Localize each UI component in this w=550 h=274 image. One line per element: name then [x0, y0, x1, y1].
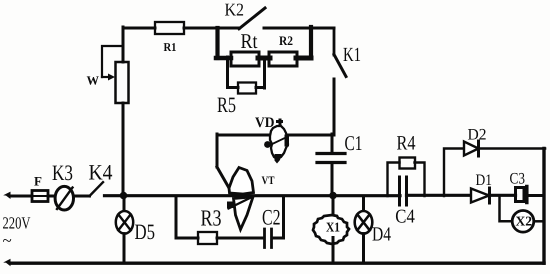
- capacitor C1: [331, 134, 334, 152]
- wire left vertical: [122, 27, 125, 196]
- wire R5 right branch: [256, 57, 265, 88]
- resistor R4: [400, 158, 416, 169]
- svg-text:D4: D4: [372, 224, 391, 246]
- node junction dot C1 bus: [329, 192, 337, 200]
- fuse F: [32, 191, 48, 202]
- wire R4 loop: [388, 163, 425, 197]
- svg-text:F: F: [34, 174, 42, 189]
- svg-text:K1: K1: [343, 44, 361, 66]
- resistor R1: [155, 22, 184, 34]
- svg-text:R4: R4: [397, 133, 416, 155]
- svg-text:D5: D5: [135, 219, 156, 244]
- svg-text:R3: R3: [201, 206, 222, 231]
- wire R5 left branch: [228, 57, 239, 88]
- svg-text:C3: C3: [510, 171, 526, 188]
- wire R3-C2 loop: [176, 196, 198, 238]
- main bus: [11, 195, 32, 198]
- wire top-left horizontal: [123, 27, 240, 30]
- svg-text:R1: R1: [164, 40, 177, 54]
- wire bus segment right: [407, 194, 516, 197]
- wire: [217, 237, 264, 240]
- wire VD row: [217, 134, 333, 137]
- wire: [74, 195, 90, 198]
- lamp X2: [512, 211, 534, 233]
- svg-text:220V: 220V: [3, 214, 32, 233]
- capacitor C2: [265, 229, 272, 248]
- wire bus segment: [105, 194, 401, 197]
- node: thick right riser to top wire: [309, 27, 313, 58]
- lamp D4: [362, 196, 365, 212]
- bottom bus: [11, 262, 544, 265]
- resistor Rt: [231, 52, 259, 66]
- wire top-right horizontal: [264, 27, 334, 30]
- switch K4: [90, 182, 104, 196]
- svg-text:K3: K3: [52, 160, 73, 185]
- wire right vertical: [542, 149, 545, 264]
- wire R2 right link: [296, 56, 311, 61]
- switch K2: [239, 8, 265, 29]
- resistor R2: [269, 52, 297, 66]
- svg-text:D2: D2: [468, 127, 487, 144]
- svg-text:~: ~: [3, 231, 12, 250]
- wire Rt-R2 link: [258, 56, 270, 61]
- svg-text:Rt: Rt: [241, 29, 258, 53]
- svg-text:W: W: [87, 74, 100, 88]
- switch K1: [333, 28, 336, 55]
- transistor VT: [227, 168, 254, 230]
- wire to Rt: [216, 56, 231, 61]
- svg-text:C2: C2: [262, 205, 281, 230]
- wire D2 branch: [444, 149, 464, 197]
- svg-text:C4: C4: [395, 207, 415, 228]
- capacitor C4: [400, 177, 407, 205]
- svg-text:R5: R5: [217, 92, 236, 117]
- diode D1: [471, 189, 489, 203]
- diode D2: [464, 142, 479, 156]
- lamp D5: [123, 196, 126, 212]
- node junction dot: [120, 192, 128, 200]
- svg-text:C1: C1: [345, 131, 363, 155]
- svg-text:VT: VT: [262, 175, 275, 187]
- svg-text:X2: X2: [516, 214, 533, 229]
- svg-text:X1: X1: [326, 220, 340, 235]
- svg-text:D1: D1: [476, 172, 493, 189]
- wire: [272, 196, 284, 238]
- node: thick left drop of Rt block: [215, 28, 219, 58]
- wire VD-left drop to VT: [216, 134, 219, 167]
- capacitor C3: [516, 188, 525, 202]
- lamp X1: [332, 196, 335, 216]
- resistor R5: [238, 83, 256, 94]
- svg-text:K2: K2: [225, 0, 245, 20]
- svg-text:K4: K4: [89, 160, 113, 185]
- wire: [48, 195, 56, 198]
- svg-text:R2: R2: [279, 33, 293, 48]
- potentiometer W: [116, 62, 129, 103]
- wire X2 branch: [500, 196, 513, 222]
- resistor R3: [198, 232, 217, 244]
- breaker K3: [55, 186, 73, 210]
